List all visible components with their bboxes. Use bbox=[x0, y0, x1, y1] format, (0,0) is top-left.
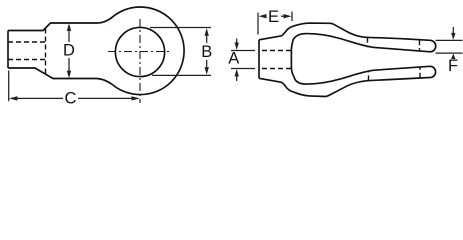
masks to hide circle arc behind the neck bbox=[44, 25, 106, 78]
upper prong tip hidden line bbox=[419, 40, 421, 52]
tapped hole lower hidden line bbox=[8, 59, 46, 61]
upper prong outer edge bbox=[259, 23, 436, 52]
centerlines bbox=[108, 19, 172, 103]
lower prong outer edge bbox=[259, 66, 436, 96]
svg-text:A: A bbox=[228, 49, 239, 67]
hidden hole lines in fork boss bbox=[262, 38, 420, 81]
dimension A bbox=[231, 39, 255, 82]
upper prong bend hidden line bbox=[367, 38, 369, 48]
svg-text:C: C bbox=[65, 89, 77, 107]
hidden hole lines in shank bbox=[8, 29, 46, 74]
svg-text:B: B bbox=[201, 43, 212, 61]
fork bore upper hidden line bbox=[262, 50, 291, 52]
boss left edge bbox=[258, 40, 260, 79]
svg-text:F: F bbox=[448, 57, 458, 75]
bore circle bbox=[115, 27, 164, 76]
shank top profile bbox=[8, 17, 112, 30]
dimension B bbox=[150, 28, 211, 76]
eye head outer circle bbox=[97, 7, 185, 95]
dimension D bbox=[68, 26, 70, 76]
svg-text:E: E bbox=[268, 8, 279, 26]
lower prong bend hidden line bbox=[368, 70, 370, 80]
shank bottom profile bbox=[8, 68, 113, 85]
horizontal centerline bbox=[108, 51, 172, 53]
slot (crotch) bbox=[291, 34, 374, 85]
dimension F bbox=[436, 27, 463, 53]
shank left end face bbox=[7, 31, 9, 69]
dimension E bbox=[258, 12, 292, 35]
tapped hole upper hidden line bbox=[8, 41, 46, 43]
dimension C bbox=[9, 71, 136, 102]
vertical centerline bbox=[139, 19, 141, 103]
shank and neck outline with fillets bbox=[8, 17, 165, 85]
lower prong tip hidden line bbox=[419, 67, 421, 78]
tapped hole depth hidden line bbox=[45, 29, 47, 74]
svg-text:D: D bbox=[63, 42, 75, 60]
fork bore lower hidden line bbox=[262, 68, 291, 70]
